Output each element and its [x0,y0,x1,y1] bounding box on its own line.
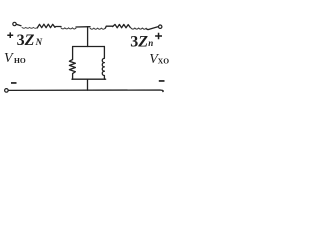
svg-text:V: V [4,51,14,66]
svg-text:3Z: 3Z [130,33,148,50]
svg-text:n: n [148,38,153,48]
svg-text:HO: HO [14,56,26,65]
svg-text:3Z: 3Z [17,32,35,49]
svg-text:XO: XO [158,57,169,66]
svg-text:N: N [35,37,43,47]
